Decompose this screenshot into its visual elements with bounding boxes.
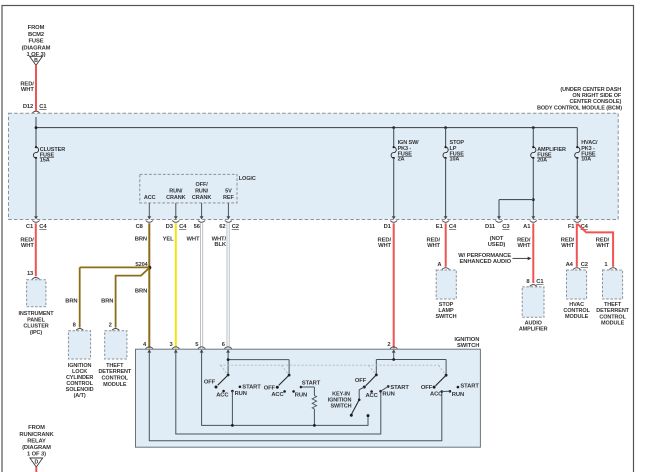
svg-text:D1: D1 [384, 224, 392, 230]
wire YEL BCM D3 to ignition switch pin 3 [163, 223, 176, 348]
svg-text:C4: C4 [449, 224, 457, 230]
svg-text:ACC: ACC [216, 392, 229, 398]
svg-text:6: 6 [222, 342, 226, 348]
fuse CLUSTER FUSE 15A [33, 128, 393, 217]
logic output ACC [144, 195, 156, 216]
svg-text:D12: D12 [23, 104, 33, 110]
wire pin 2 net (to wafer 4 and wafer 5 pivots) [376, 352, 446, 375]
svg-text:LOGIC: LOGIC [239, 176, 256, 182]
svg-text:BODY CONTROL MODULE (BCM): BODY CONTROL MODULE (BCM) [537, 105, 622, 111]
wire BRN splice to ignition lock cylinder control solenoid [65, 267, 149, 327]
svg-text:WHT: WHT [561, 243, 574, 249]
svg-text:CRANK: CRANK [192, 195, 211, 201]
svg-text:D3: D3 [166, 224, 174, 230]
svg-text:D11: D11 [485, 224, 496, 230]
svg-text:ACC: ACC [365, 393, 378, 399]
svg-text:62: 62 [219, 224, 225, 230]
svg-text:OFF: OFF [204, 379, 216, 385]
fuse HVAC/PK3 - FUSE 10A [575, 140, 598, 216]
wire RED/WHT BCM E1 to stop lamp switch [427, 223, 446, 266]
svg-text:IGNITION: IGNITION [328, 397, 352, 403]
svg-text:OFF/: OFF/ [196, 182, 209, 188]
svg-text:RELAY: RELAY [27, 438, 46, 444]
svg-text:FROM: FROM [28, 425, 45, 431]
module box INSTRUMENT PANEL CLUSTER (IPC) [18, 271, 54, 336]
resistor (key-in chime) [312, 396, 316, 410]
svg-text:(A/T): (A/T) [74, 393, 86, 399]
svg-text:10A: 10A [450, 157, 460, 163]
svg-text:C4: C4 [179, 224, 187, 230]
svg-text:1: 1 [604, 262, 608, 268]
connector exit D3 / C4 (RUN/CRANK output) [166, 216, 188, 230]
connector exit D11 / C3 (not used) [485, 216, 510, 248]
svg-text:CRANK: CRANK [166, 195, 185, 201]
wire pin 4 net (to wafer 5 ACC) [149, 352, 442, 440]
svg-text:RUN/: RUN/ [195, 188, 209, 194]
module box THEFT DETERRENT CONTROL MODULE (right) [596, 262, 629, 327]
svg-text:WHT: WHT [21, 87, 34, 93]
svg-text:WHT: WHT [21, 243, 34, 249]
ignition switch pin 5 entry [195, 342, 205, 353]
svg-text:E1: E1 [436, 224, 444, 230]
junction node bus/ign sw fuse [392, 126, 395, 129]
svg-text:5V: 5V [225, 188, 232, 194]
ignition switch wafer 2 [264, 374, 321, 399]
label IGNITION SWITCH [454, 337, 479, 349]
junction node amplifier fuse / D11 branch [532, 198, 535, 201]
ignition switch pin 4 entry [143, 342, 153, 353]
svg-text:A4: A4 [566, 262, 574, 268]
connector exit A1 (amplifier fuse output) [523, 216, 537, 230]
svg-text:WHT: WHT [186, 236, 199, 242]
bus wire inside BCM [36, 117, 577, 147]
svg-text:SWITCH: SWITCH [330, 403, 351, 409]
wire WHT BCM 56 to ignition switch pin 5 [186, 223, 202, 348]
wire RED/WHT BCM F1 to theft deterrent control module (right) [578, 224, 614, 267]
wire branch to D11 (not used) [499, 200, 533, 217]
svg-text:8: 8 [526, 279, 530, 285]
label pin D12 [23, 104, 33, 110]
svg-text:RUN/: RUN/ [169, 188, 183, 194]
wire pin 5 net (bottom bus to key-in switch) [202, 352, 368, 425]
svg-text:13: 13 [27, 271, 34, 277]
svg-text:WHT: WHT [596, 243, 609, 249]
svg-text:FROM: FROM [28, 25, 45, 31]
ignition switch wafer 4 [355, 374, 409, 399]
wire RED/WHT BCM C1 to IPC pin 13 [20, 223, 35, 276]
svg-text:1 OF 3): 1 OF 3) [27, 452, 46, 458]
svg-text:(IPC): (IPC) [30, 330, 43, 336]
svg-text:PANEL: PANEL [27, 317, 45, 323]
svg-text:CLUSTER: CLUSTER [23, 324, 48, 330]
svg-text:F1: F1 [568, 224, 575, 230]
svg-text:INSTRUMENT: INSTRUMENT [18, 311, 54, 317]
wire RED/WHT BCM D1 to ignition switch pin 2 [378, 223, 394, 348]
svg-text:CENTER CONSOLE): CENTER CONSOLE) [570, 99, 622, 105]
wire pin 3 net (to wafer 4 RUN) [176, 352, 381, 434]
wire pin 6 net (to wafer 1 and wafer 2 pivots) [228, 352, 289, 375]
svg-text:10A: 10A [581, 157, 591, 163]
svg-text:(DIAGRAM: (DIAGRAM [22, 445, 51, 451]
ignition switch wafer 1 [204, 374, 261, 399]
module box IGNITION SWITCH [136, 349, 481, 447]
svg-text:SWITCH: SWITCH [457, 343, 479, 349]
svg-text:5: 5 [195, 342, 199, 348]
svg-text:RUN: RUN [452, 392, 464, 398]
svg-text:THEFT: THEFT [604, 302, 622, 308]
svg-text:15A: 15A [40, 158, 50, 164]
fuse IGN SW/PK3 - FUSE 2A [391, 140, 419, 216]
module box STOP LAMP SWITCH [435, 262, 456, 320]
svg-text:USED): USED) [488, 242, 506, 248]
svg-text:ACC: ACC [271, 392, 284, 398]
svg-text:BRN: BRN [135, 236, 147, 242]
ignition switch pin 6 entry [222, 342, 232, 353]
reference note FROM RUN/CRANK RELAY (DIAGRAM 1 OF 3) [19, 425, 54, 457]
svg-text:BLK: BLK [214, 242, 227, 248]
svg-text:56: 56 [194, 224, 201, 230]
connector exit C8 (ACC output) [136, 216, 153, 230]
wire resistor to pin 5 bus [313, 409, 315, 425]
reference note FROM BCM2 FUSE (DIAGRAM 1 OF 3) [22, 25, 51, 58]
svg-text:A: A [437, 262, 442, 268]
junction node pin2/wafer feeds [392, 358, 395, 361]
svg-text:WHT: WHT [517, 243, 530, 249]
svg-text:(UNDER CENTER DASH: (UNDER CENTER DASH [560, 87, 621, 93]
connector exit 56 (OFF/RUN/CRANK output) [194, 216, 206, 230]
svg-text:MODULE: MODULE [601, 321, 625, 327]
svg-text:C4: C4 [39, 224, 47, 230]
svg-text:START: START [460, 383, 479, 389]
svg-text:BRN: BRN [65, 298, 77, 304]
fuse STOP LP FUSE 10A [443, 128, 464, 217]
svg-text:START: START [302, 380, 321, 386]
connector C1 (BCM top entry) [32, 104, 47, 117]
module box BCM (dashed) [9, 113, 619, 219]
label BODY CONTROL MODULE (BCM) [537, 87, 622, 112]
wire BRN splice to theft deterrent control module [101, 268, 149, 328]
connector exit 62 / C2 (5V REF output) [219, 216, 239, 230]
svg-text:BRN: BRN [101, 298, 113, 304]
svg-text:C3: C3 [502, 224, 510, 230]
svg-text:WHT: WHT [427, 243, 440, 249]
svg-text:RUN/CRANK: RUN/CRANK [19, 432, 54, 438]
connector exit E1 / C4 (stop lp fuse output) [436, 216, 457, 230]
svg-text:REF: REF [223, 195, 234, 201]
junction node pin6/wafer feeds [227, 358, 230, 361]
svg-text:20A: 20A [537, 158, 547, 164]
ref triangle B [30, 56, 43, 65]
module box HVAC CONTROL MODULE [563, 262, 590, 320]
wire wafer 4 RUN-START link [381, 386, 389, 391]
svg-text:RUN: RUN [235, 391, 247, 397]
wire wafer 1 RUN to pin 5 bus [231, 391, 233, 425]
svg-text:RUN: RUN [295, 393, 307, 399]
junction node bus/amplifier fuse [532, 126, 535, 129]
junction node bus/stop lp fuse [444, 126, 447, 129]
svg-text:C1: C1 [39, 104, 47, 110]
svg-text:C8: C8 [136, 224, 144, 230]
wire wafer 2 START to resistor [301, 387, 314, 396]
svg-text:2A: 2A [398, 157, 405, 163]
wire stub below triangle D [35, 467, 37, 472]
svg-text:3: 3 [169, 342, 173, 348]
svg-text:RUN: RUN [382, 392, 394, 398]
svg-text:OFF: OFF [264, 385, 276, 391]
ref triangle D [30, 458, 43, 467]
svg-text:BRN: BRN [135, 288, 147, 294]
label LOGIC [239, 176, 256, 182]
svg-text:START: START [242, 385, 261, 391]
svg-text:STOP: STOP [439, 302, 454, 308]
svg-text:DETERRENT: DETERRENT [98, 369, 131, 375]
connector exit D1 (ign sw fuse output) [384, 216, 398, 230]
svg-text:C1: C1 [26, 224, 34, 230]
svg-text:THEFT: THEFT [106, 363, 124, 369]
key-in ignition switch [328, 387, 370, 417]
wire RED/WHT BCM A1 to audio amplifier [517, 223, 533, 283]
module box IGNITION LOCK CYLINDER CONTROL SOLENOID (A/T) [66, 323, 94, 399]
mechanical linkage (dashed) [220, 365, 446, 374]
connector exit C1 / C4 (cluster fuse output) [26, 216, 48, 230]
svg-text:8: 8 [73, 323, 77, 329]
junction node resistor / pin5 bus [313, 424, 316, 427]
svg-text:DETERRENT: DETERRENT [596, 308, 629, 314]
splice S204 [135, 262, 151, 269]
svg-text:WHT: WHT [378, 243, 391, 249]
svg-text:CONTROL: CONTROL [599, 314, 626, 320]
ignition switch wafer 5 [421, 374, 479, 398]
label RED/WHT (BCM2 feed) [20, 81, 34, 93]
svg-text:START: START [390, 385, 409, 391]
wire RED/WHT from triangle B to BCM pin D12 [35, 65, 37, 110]
svg-text:4: 4 [143, 342, 147, 348]
wire RED/WHT BCM F1 to HVAC control module [561, 224, 577, 267]
svg-text:(DIAGRAM: (DIAGRAM [22, 45, 51, 51]
svg-text:C1: C1 [536, 279, 544, 285]
svg-text:YEL: YEL [163, 236, 175, 242]
logic output 5V REF [223, 188, 234, 216]
fuse AMPLIFIER FUSE 20A [531, 128, 566, 217]
svg-text:A1: A1 [523, 224, 531, 230]
svg-text:2: 2 [387, 342, 390, 348]
logic output OFF/RUN/CRANK [192, 182, 211, 217]
svg-text:D: D [34, 460, 38, 466]
svg-text:FUSE: FUSE [28, 39, 43, 45]
connector exit F1 / C4 (hvac fuse output) [568, 216, 589, 230]
svg-text:OFF: OFF [421, 385, 433, 391]
junction node wafer1 RUN / pin5 bus [231, 424, 234, 427]
logic output RUN/CRANK [166, 188, 185, 216]
note W/ PERFORMANCE ENHANCED AUDIO with arrow [458, 253, 531, 265]
svg-text:ACC: ACC [144, 195, 156, 201]
wire wafer 5 ACC-RUN link [442, 390, 450, 392]
svg-text:HVAC: HVAC [569, 302, 584, 308]
svg-text:AMPLIFIER: AMPLIFIER [519, 327, 548, 333]
ignition switch pin 3 entry [169, 342, 179, 353]
svg-text:SWITCH: SWITCH [435, 314, 456, 320]
svg-text:BCM2: BCM2 [28, 32, 44, 38]
svg-text:OFF: OFF [355, 378, 367, 384]
module box AUDIO AMPLIFIER [519, 279, 548, 333]
svg-text:C2: C2 [232, 224, 239, 230]
svg-text:ENHANCED AUDIO: ENHANCED AUDIO [459, 259, 511, 265]
svg-text:ON RIGHT SIDE OF: ON RIGHT SIDE OF [572, 93, 622, 99]
svg-text:C2: C2 [581, 262, 588, 268]
wire BRN BCM C8 to splice S204 and ignition switch pin 4 [135, 223, 150, 348]
svg-text:CONTROL: CONTROL [102, 376, 129, 382]
wire WHT/BLK BCM 62 to ignition switch pin 6 [212, 223, 230, 348]
junction node bus/cluster fuse [35, 126, 38, 129]
svg-text:ACC: ACC [430, 392, 443, 398]
module box THEFT DETERRENT CONTROL MODULE (left) [98, 323, 131, 388]
svg-text:MODULE: MODULE [103, 382, 127, 388]
logic box (dashed) [140, 174, 237, 203]
ignition switch pin 2 entry [387, 342, 397, 353]
svg-text:MODULE: MODULE [565, 314, 589, 320]
svg-text:2: 2 [109, 323, 112, 329]
svg-text:B: B [34, 58, 38, 64]
